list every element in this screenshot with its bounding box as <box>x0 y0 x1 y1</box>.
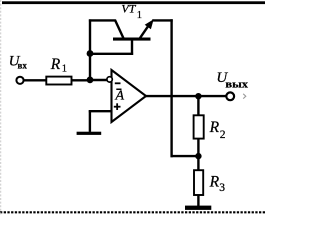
svg-text:2: 2 <box>220 129 226 141</box>
svg-text:R: R <box>50 56 61 73</box>
svg-text:VT: VT <box>121 1 136 15</box>
svg-text:3: 3 <box>219 182 225 194</box>
svg-text:1: 1 <box>137 10 142 21</box>
svg-text:A: A <box>115 89 125 104</box>
svg-text:вх: вх <box>18 61 28 71</box>
svg-text:1: 1 <box>62 63 67 74</box>
svg-text:вых: вых <box>225 79 248 90</box>
svg-text:R: R <box>209 119 220 136</box>
svg-text:R: R <box>209 173 220 190</box>
